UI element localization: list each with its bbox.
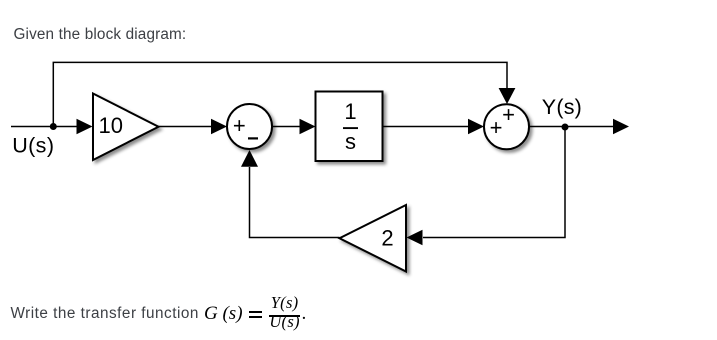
arrowhead into sum S1 left xyxy=(211,119,227,135)
integrator block 1/s xyxy=(316,92,383,162)
wire S2 to output xyxy=(529,126,615,128)
svg-text:s: s xyxy=(345,129,356,154)
gain block G1 value 10 xyxy=(93,94,159,161)
arrowhead into gain G2 right xyxy=(407,230,423,246)
svg-text:+: + xyxy=(502,102,515,127)
question text xyxy=(11,306,199,321)
formula period xyxy=(302,304,307,323)
arrowhead output xyxy=(613,119,629,135)
wire G1 to sum S1 xyxy=(159,126,214,128)
wire feedback left (G2 to sum S1 bottom) xyxy=(250,167,340,238)
formula equals sign xyxy=(249,311,262,313)
formula fraction denominator U(s) xyxy=(269,314,300,331)
svg-text:2: 2 xyxy=(381,225,393,250)
svg-text:+: + xyxy=(233,113,246,138)
fraction bar of 1/s xyxy=(343,127,358,129)
svg-text:10: 10 xyxy=(98,113,122,138)
summing junction S2 xyxy=(484,104,529,149)
wire S1 to integrator xyxy=(272,126,301,128)
node B (output branch point) xyxy=(562,124,569,131)
wire integrator to sum S2 xyxy=(383,126,471,128)
svg-text:Y(s): Y(s) xyxy=(542,95,582,119)
gain block G2 value 2 xyxy=(340,205,407,272)
arrowhead into sum S2 left xyxy=(468,119,484,135)
wire feedback right (node B down and left to gain G2) xyxy=(423,127,565,238)
node A (input branch point) xyxy=(50,123,57,130)
arrowhead into gain G1 xyxy=(77,119,93,135)
svg-text:1: 1 xyxy=(344,99,356,124)
formula fraction bar xyxy=(269,315,300,317)
svg-text:U(s): U(s) xyxy=(12,133,54,157)
title text xyxy=(14,27,187,42)
wire feedforward (node A up and across to sum S2) xyxy=(53,62,507,126)
arrowhead into integrator left xyxy=(300,119,316,135)
label minus S1 xyxy=(248,137,258,139)
svg-text:+: + xyxy=(490,115,503,140)
arrowhead up into sum S1 bottom xyxy=(241,150,258,167)
wire input U(s) xyxy=(11,126,79,128)
formula fraction numerator Y(s) xyxy=(269,295,300,312)
formula G(s) xyxy=(204,304,243,323)
arrowhead down into sum S2 top xyxy=(499,88,516,104)
summing junction S1 xyxy=(227,104,272,149)
